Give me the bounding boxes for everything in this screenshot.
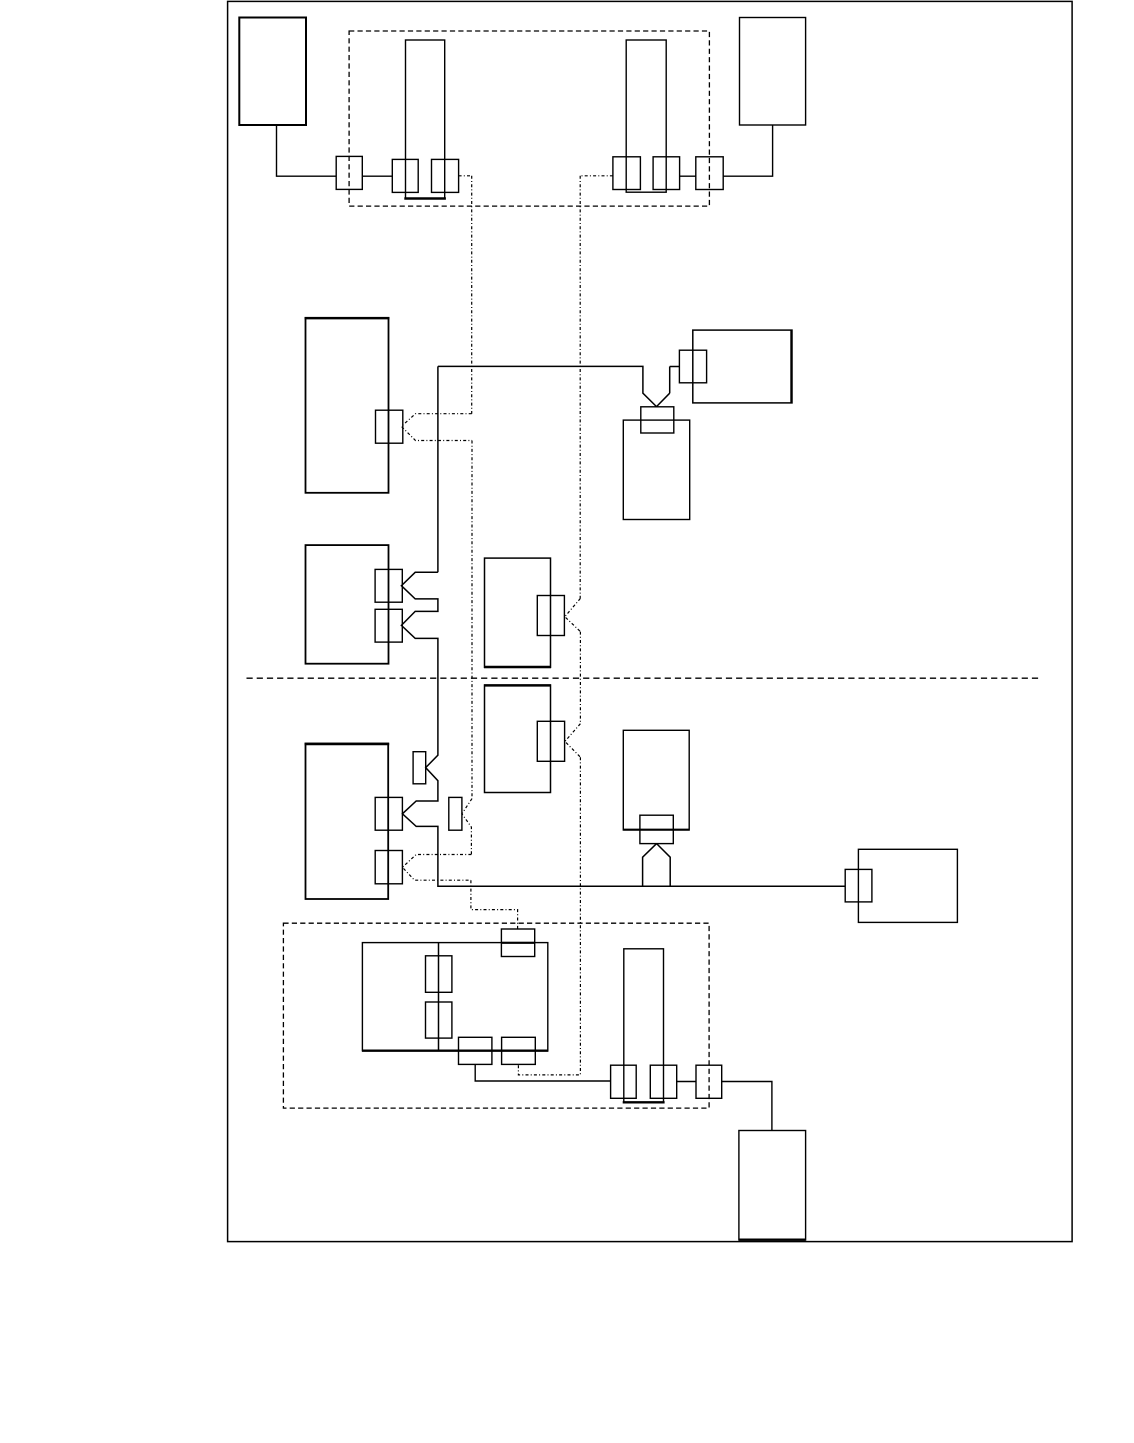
wire BL3 to B3 [722,1082,772,1131]
connector BL1 [611,1065,637,1098]
V-splice wires R2 to wire W2 [643,844,671,887]
bus B lower segment to connector BB2 [518,757,580,1075]
wire T6 to B2 [723,125,772,176]
fuse S2 [426,1002,452,1038]
bus A tail to connector BT [471,880,518,929]
unit box L2 [306,545,389,664]
dash-dot V bus B to connector C1 [565,598,581,631]
connector C1 [537,596,564,636]
bus B segment C1 to C2 [579,632,581,724]
internal bus line in BB [438,943,440,1051]
wire BB1 to connector BL1 [475,1064,610,1081]
connector T5 [653,157,680,190]
bus W2 solid vertical [437,366,439,572]
wire T5 to T6 [680,175,696,177]
connector BL2 [650,1065,676,1098]
connector M1 [679,350,706,383]
connector R2 (bottom of box R2) [640,815,673,843]
dash-dot lead T4 to bus B [580,175,613,177]
series element N2 (in dash-dot bus A) [449,797,462,830]
unit box B1 (top-left battery) [239,18,306,126]
connector L2b [375,609,402,642]
unit box C2 (center) [484,685,551,793]
dashed separator line [247,677,1041,679]
main wire W1 with V-splice to connector R1 [438,366,680,406]
connector T4 [613,157,641,190]
unit box M (sensor top-middle-right) [693,330,792,404]
connector BB1 [459,1037,492,1064]
unit box B3 (bottom-right) [739,1131,806,1241]
dashed harness boundary (top) [349,31,709,206]
unit box C1 (center) [484,558,551,667]
component U1 (top-left tall unit) [404,40,446,199]
connector BT (top of BB) [501,929,534,957]
connector L3a [375,797,402,830]
dash-dot V bus B to connector C2 [565,724,581,758]
component U2 (top-right tall unit) [626,40,666,192]
component U3 (bottom tall unit) [623,949,665,1103]
wire from B1 to connector T1 [277,125,337,176]
connector L3b [375,851,402,884]
bus A upper segment [471,176,473,414]
dash-dot lead T3 to bus A [459,175,472,177]
connector L1 [376,410,403,443]
dash-dot arms bus A to connector L3b [402,855,471,881]
wire BL2 to BL3 [677,1081,696,1083]
border frame [228,1,1073,1241]
wire T1 to T2 [362,175,392,177]
connector BB2 [502,1037,536,1064]
connector RR [845,869,872,902]
unit box B2 (top-right) [740,18,806,126]
fuse S1 [426,956,452,993]
dashed harness boundary (bottom) [283,923,709,1108]
connector R1 (top of box R1) [641,407,674,433]
connector T1 [336,156,362,189]
unit box BB (bottom fuse box) [362,943,548,1051]
unit box L3 [305,744,390,900]
unit box L1 (middle-left) [305,318,390,493]
bus A middle segment [471,441,473,799]
connector C2 [537,721,564,761]
unit box R2 [623,730,689,830]
zigzag through connectors L2a L2b, series element N1, connector L3a [401,572,844,886]
connector L2a [375,569,402,602]
connector T6 [696,157,723,190]
connector T3 [432,159,459,192]
series element N1 (in solid bus) [413,752,426,784]
unit box RR (right) [858,849,957,922]
dash-dot arms bus A to connector L1 [401,414,472,441]
bus B upper segment [579,176,581,599]
connector BL3 [696,1065,722,1098]
unit box R1 [623,420,689,519]
connector T2 [392,159,418,192]
dash-dot V around N2 [462,799,472,855]
